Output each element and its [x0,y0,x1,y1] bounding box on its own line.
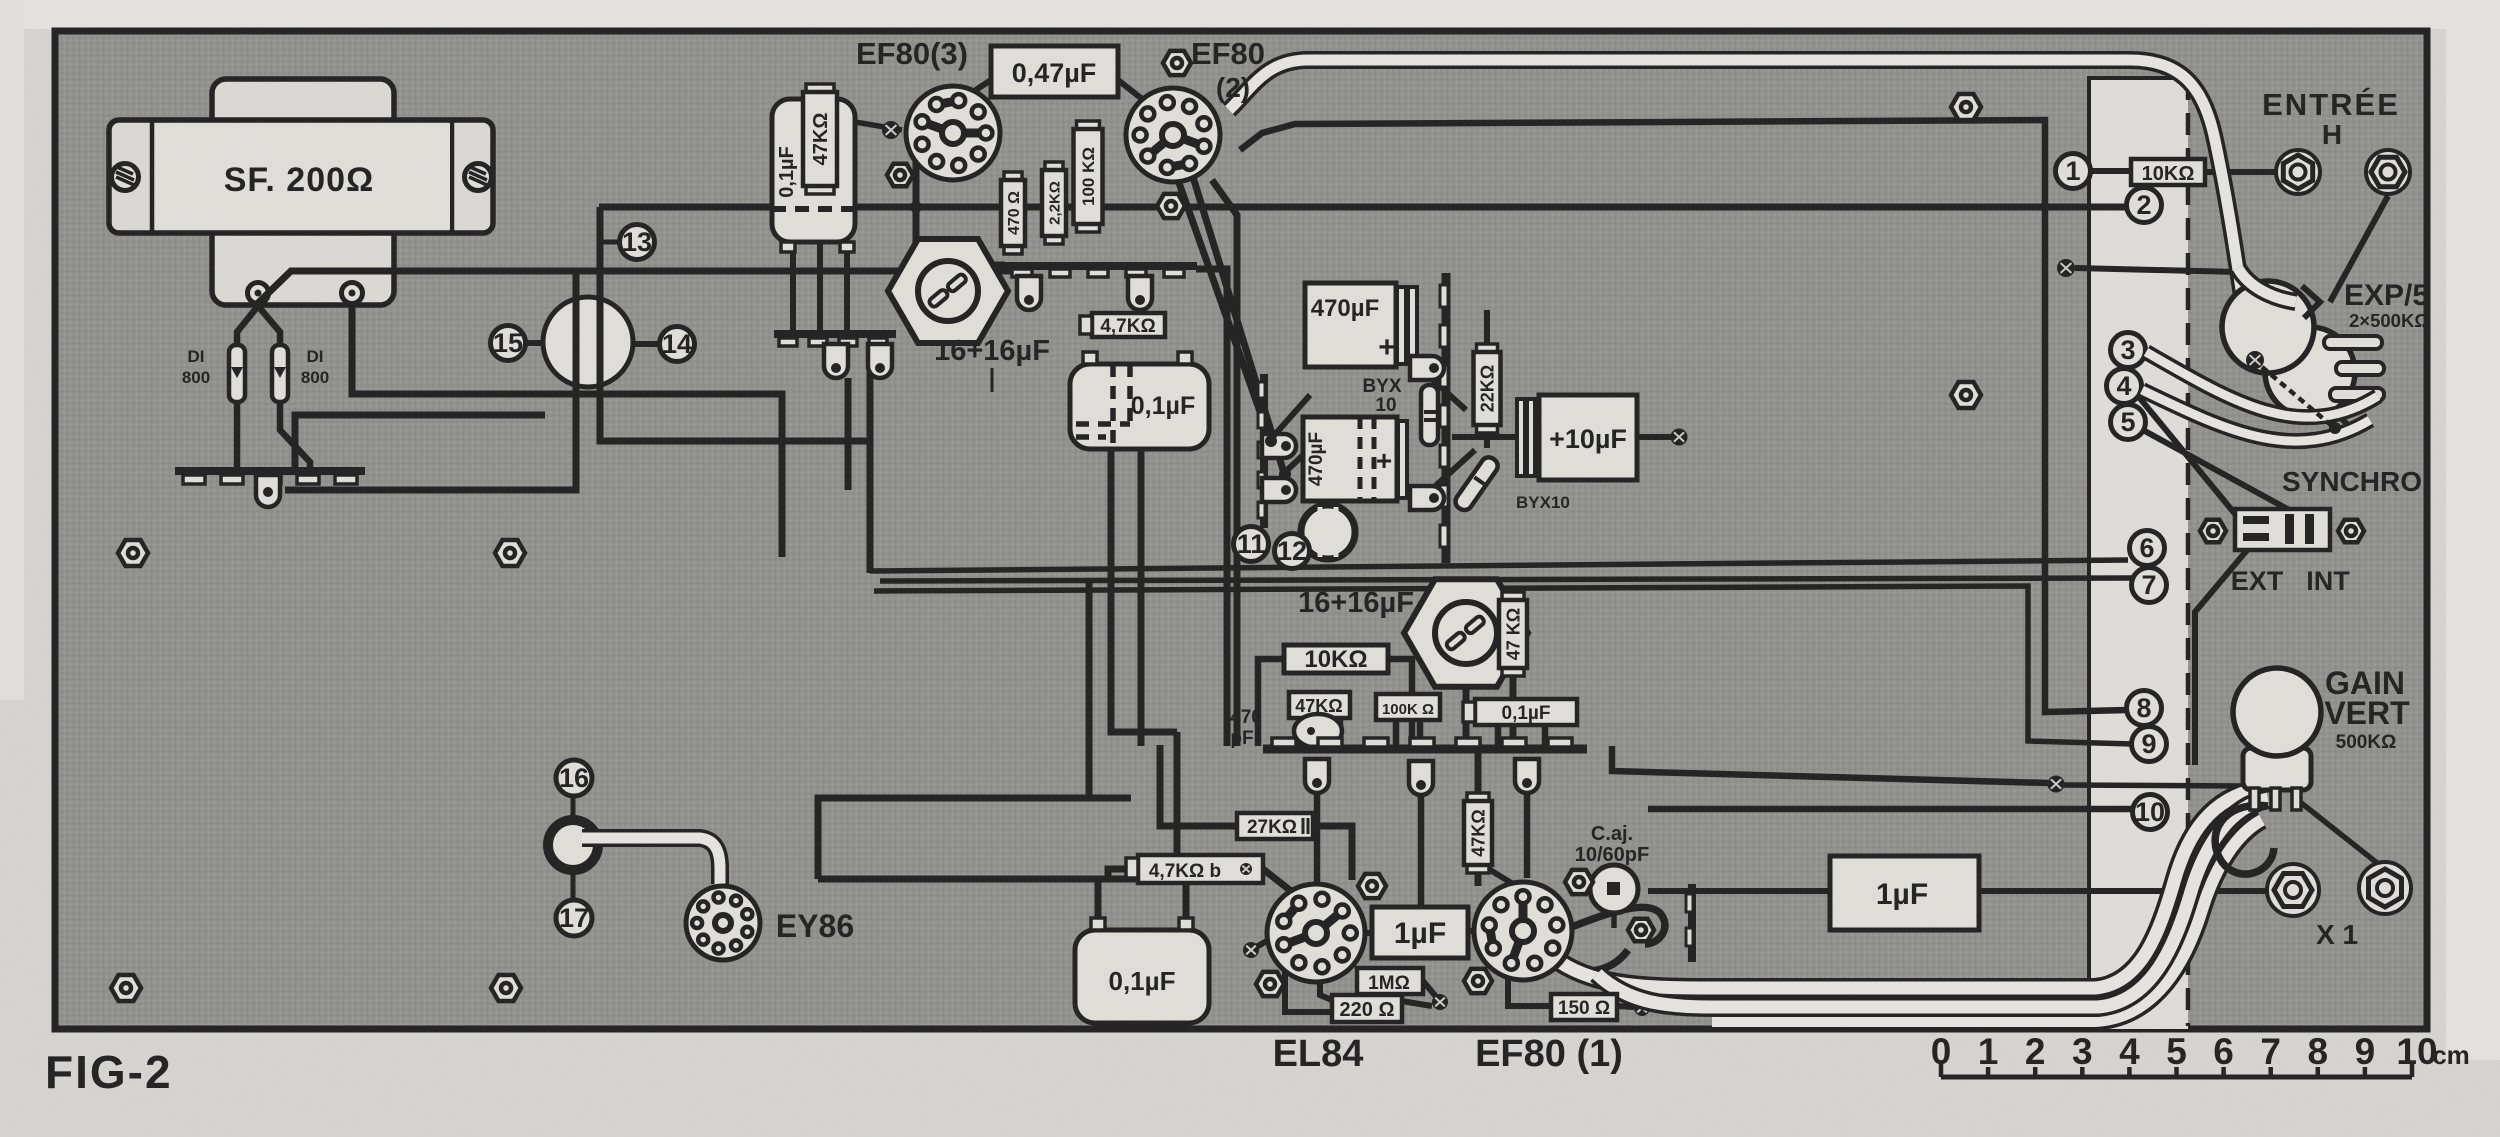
label 470pF [1230,707,1262,749]
white cable into pot [2238,268,2296,302]
connector X1 right [2359,862,2411,914]
wire 4.7k link [1108,869,1296,895]
connector X1 left [2267,864,2319,916]
solder dot EF80(3) [882,121,900,139]
capacitor 470pF [1294,714,1342,748]
wire 47k lower leads [1475,746,1482,886]
resistor 47K mid vertical [1499,592,1527,676]
wire 1uF right [1468,928,1478,934]
capacitor 470uF lower [1303,417,1407,501]
node 15 [491,326,526,361]
tag strip B [1005,266,1197,277]
resistor 220 [1332,995,1402,1022]
hex nut left 2 [495,540,525,566]
wire gain hook [2215,805,2274,874]
wire hook a [1552,907,1665,944]
node 4 [2107,369,2142,404]
diode BYX10 a [1421,385,1438,445]
capacitor 0,1uF bottom [1075,918,1209,1023]
wire diode2 to ground [280,402,310,468]
white cable bottom 2 [1597,799,2268,1007]
wire cap lead b [1183,879,1190,930]
resistor 4,7K top [1080,313,1165,337]
label GAIN VERT [2324,665,2410,753]
label 16+16uF lower [1298,587,1414,619]
tag strip C lug 1 [1305,759,1329,793]
tag strip B lug 1 [1017,276,1041,310]
wire lug1 to diodes [237,306,280,345]
wire bus y=207 (to node 2) [599,204,2129,211]
wire x=1177 vertical [1174,732,1181,881]
wire ef801 bottom [1508,973,1551,1006]
node 12 [1275,534,1310,569]
transformer SF.200 vertical body [212,79,394,305]
wire 1uF left [1356,930,1372,936]
wire 16+16 lower lead [1463,676,1470,746]
wire exp dot [2275,360,2292,377]
capacitor 0,47uF [991,46,1118,97]
wire 0.1uF box leads [1498,725,1545,746]
node 7 [2132,568,2167,603]
wire node5 black [2143,430,2302,517]
wire y=394 from transformer lug [352,308,782,557]
tag strip C lug 3 [1515,759,1539,793]
node 11 [1234,527,1269,562]
tag strip A lug 1 [824,344,848,378]
tag strip D lug 2 [1410,486,1444,510]
capacitor can 16+16uF top [888,239,1008,343]
wire 10k mid leads [1258,659,1412,746]
junction dot el84 [1243,942,1259,958]
wire 470pF loop [1300,719,1330,746]
hex nut right 2 [1951,382,1981,408]
resistor 1M [1357,968,1423,994]
wire through 1uF [1648,888,2268,894]
capacitor can 16+16uF lower [1404,579,1528,686]
cable end chevron [2302,286,2320,318]
grommet 16/17 [548,820,598,870]
tag strip F vertical [1258,374,1265,528]
tube socket EY86 [686,886,760,960]
tube socket EL84 [1267,884,1365,982]
wire entree diag [2330,196,2388,302]
wire x=793 lead [790,250,796,333]
capacitor 1uF EL84 [1372,907,1468,958]
dashed wires in 470uF [1360,417,1374,501]
wire 0.47uF left lead [962,80,991,99]
diode D1 label [182,347,210,387]
diode D1 body [229,345,245,402]
label EF80(2) [1191,36,1265,103]
wire 100k box leads [1396,720,1420,746]
wire 27k link [1160,745,1352,880]
wire diag 470uF b [1284,430,1330,473]
capacitor 0,1uF mid [1070,352,1209,449]
node 1 [2056,154,2091,189]
wire el84 pins [1285,968,1438,1012]
hex nut near EF80(2) [1163,51,1191,75]
transformer label text [224,161,375,199]
transformer SF.200 label window [152,122,452,231]
capacitor 0,1uF body TL [772,99,855,252]
resistor 100K box [1376,694,1440,720]
wire 47k box leads [1310,718,1340,746]
wire to node 8 [1240,120,2127,712]
label EF80(3) [856,36,968,71]
wire to gain pot [1612,746,2048,783]
hex nut bottom 1 [111,975,141,1001]
wire x=1089 vertical [1089,581,1131,798]
wire diag 470uF a [1270,395,1310,440]
wire 0.47uF right lead [1118,80,1146,102]
transformer screw right [465,164,492,191]
white cable top [1229,60,2242,296]
wire 10k to connector [2205,169,2281,175]
connector ENTREE right [2366,150,2410,194]
pot wiper dot [2246,351,2264,369]
junction dot gain [2048,776,2065,793]
hex nut synchro left [2200,520,2226,543]
resistor 100Kohm [1074,121,1103,232]
capacitor 470uF upper label [1311,295,1396,364]
wire to node 10 [1648,806,2133,813]
wire vertical x=600 [600,207,868,441]
wire +10uF left lead [1452,434,1517,440]
pot lug dot [2329,422,2341,434]
wire el84 left [1251,938,1272,950]
capacitor 0,1uF mid label [1131,392,1195,420]
wire node17 [571,870,576,900]
diode D2 body [272,345,288,402]
grommet 11/12 [1301,505,1355,559]
tag strip C [1263,738,1587,749]
trimmer C.aj [1590,865,1638,913]
resistor 47K vertical TL [803,84,837,194]
transformer screw left [112,164,139,191]
node 2 [2127,188,2162,223]
chassis ground dot [2057,259,2238,277]
transformer SF.200 horizontal body [109,120,493,233]
node 10 [2133,795,2168,830]
wire +10uF right lead [1637,434,1674,440]
tag strip D vertical [1440,273,1448,563]
diag end dot a [1265,435,1277,447]
potentiometer GAIN [2233,668,2321,810]
wire exp diag [2289,374,2352,428]
hex nut right 1 [1951,94,1981,120]
wire x=1111 vertical [1111,449,1177,732]
dashed fold line [2186,78,2191,1026]
wire cup to EF80(1) [1524,792,1531,878]
resistor 470ohm [1001,172,1025,254]
white cable bottom 1 [1554,789,2258,988]
wire diag EF80(2) b [1193,177,1284,473]
wire 47k lead [817,188,823,333]
white cable to EY86 [582,838,720,884]
connector SYNCHRO [2235,509,2330,550]
hex nuts around EL84 [1256,870,1593,996]
wire bottom bus b [818,798,1089,879]
wire cap lead a [1095,879,1102,930]
wire triple bus B [880,578,2133,581]
resistor 4,7K b [1126,855,1263,883]
wire x=847 lead [844,250,850,333]
tag strip E vertical [1686,884,1693,962]
label BYX 10 [1362,376,1401,416]
tube socket EF80(1) [1474,882,1572,980]
wire bottom bus a [818,876,1186,883]
caption FIG-2 [45,1046,173,1098]
node 3 [2111,333,2146,368]
diag end dot b [1279,468,1291,480]
wire x=868 tagstrip drop [867,345,874,441]
node 17 [556,900,592,936]
node 9 [2132,727,2167,762]
wire x=1141 vertical [1138,449,1145,746]
wire cup to EL84 [1314,792,1321,882]
diode D2 label [301,347,329,387]
wire diag byx b [1420,450,1475,500]
wire 1 to 10k [2090,168,2131,174]
junction dot y207 [910,201,922,213]
wire 150 right [1617,1006,1634,1007]
node 13 [599,225,655,260]
resistor 10K right [2131,159,2205,185]
node 6 [2130,531,2165,566]
wire hook b [1540,950,1628,971]
label EXP/5 [2344,279,2429,331]
resistor 22K vertical [1474,344,1501,433]
wire x=1227 vertical [1196,269,1227,746]
wire bus y=271 (to tag strip B) [258,271,1012,303]
hex nut under EF80(3) [887,164,913,187]
wire diag EF80(2) a [1178,180,1270,440]
junction dot +10uF [1671,429,1688,446]
label EXT INT [2231,566,2351,596]
dashed wires in cap mid [1076,364,1130,449]
label SYNCHRO [2282,466,2422,497]
resistor 27K [1237,813,1313,839]
label EL84 [1273,1033,1364,1075]
white cable bottom 3 [1712,820,2262,1021]
wire ef801 top [1487,868,1513,884]
tag strip F lug 1 [1262,434,1296,458]
label ENTREE H [2262,87,2400,150]
scale ruler 0-10cm [1931,1031,2470,1077]
wire diode1 to ground [234,402,241,468]
capacitor +10uF label [1549,424,1627,454]
hex nut under EF80(2) [1157,194,1185,218]
wire diag byx a [1420,368,1466,410]
wire socket3 drop [916,152,1005,265]
wire gain to X1 [2295,798,2386,870]
node 14 [660,327,695,362]
wire lug2 down [349,302,356,394]
label C.aj [1575,823,1649,866]
tag strip F lug 2 [1262,478,1296,502]
tube V14/15 [527,297,659,387]
resistor 2,2Kohm [1042,162,1066,244]
wire triple bus A [870,560,2128,571]
junction dot 150 [1634,1000,1650,1016]
tube socket EF80(3) [906,86,1000,180]
tag strip A [774,334,896,346]
dashed wire through cap [772,206,860,212]
transformer lug 2 [342,283,363,311]
label BYX10 b [1516,493,1570,512]
capacitor 470uF upper [1305,283,1417,367]
wire x=848 drop [845,378,852,490]
wire triple bus C [874,586,2133,744]
node 5 [2111,405,2146,440]
wire synchro drop [2195,549,2248,765]
diode BYX10 b [1452,454,1500,513]
wire x=874 long vertical [867,441,874,573]
hex nut bottom 2 [491,975,521,1001]
wire gain feed [2064,785,2246,786]
white cabling channel strip [2089,76,2188,1029]
hex nut synchro right [2338,520,2364,543]
wire y=415 from ground bar [295,415,545,470]
capacitor 470uF lower label [1306,432,1392,486]
solder dot near trimmer [1609,870,1625,886]
label 16+16uF top [934,335,1050,392]
hex nut left 1 [118,540,148,566]
tag strip A lug 2 [868,344,892,378]
wire node4 cable [2142,390,2370,441]
wire x=1237 vertical [1212,180,1237,746]
tag strip D lug 1 [1410,356,1444,380]
wire node3 cable [2146,352,2378,417]
wire node4 black [2138,396,2254,537]
tag strip C lug 2 [1409,761,1433,795]
wire 47k mid lead [1510,668,1517,746]
wire cup to 1uF [1418,794,1425,905]
label X1 [2316,919,2358,950]
connector ENTREE left [2276,150,2320,194]
wire trimmer stub [1611,912,1617,928]
wire 22k leads [1484,310,1490,448]
resistor 47K lower vertical [1464,793,1492,873]
capacitor 0,1uF label TL [776,146,798,198]
ground bar [175,471,365,484]
wire cap to socket3 [855,122,902,130]
label EF80(1) [1475,1033,1623,1075]
ground lug [256,475,280,507]
pot wiper spring [2262,367,2332,426]
resistor 47K box [1289,692,1350,718]
capacitor 0,1uF bottom label [1108,966,1175,996]
capacitor 1uF right [1830,856,1979,930]
hex nut near trimmer [1628,919,1654,942]
capacitor 0,1uF small box [1463,699,1577,725]
label EY86 [776,908,854,944]
node 16 [556,760,592,796]
transformer lug 1 [248,283,269,311]
capacitor +10uF [1517,395,1637,480]
wire node16 [571,796,576,820]
resistor 10K mid [1284,645,1388,673]
potentiometer EXP/5 [2222,281,2384,417]
node 8 [2127,691,2162,726]
tube socket EF80(2) [1126,88,1220,182]
tag strip B lug 2 [1128,276,1152,310]
junction dot 1M/220 [1432,994,1448,1010]
wire vertical x=576 through tube [285,271,576,490]
resistor 150 [1551,994,1617,1020]
